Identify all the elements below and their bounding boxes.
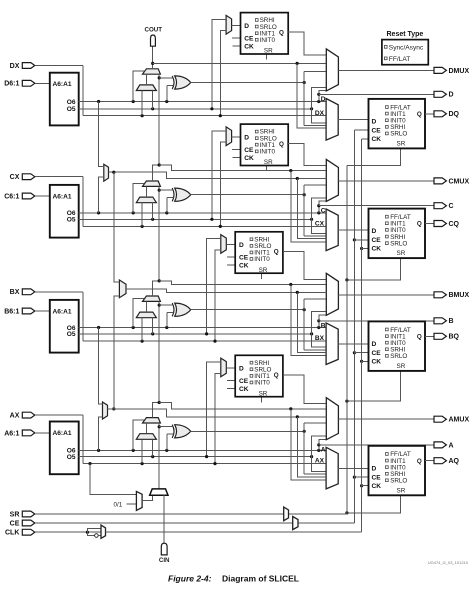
svg-text:SRLO: SRLO — [390, 131, 407, 138]
svg-text:A6:A1: A6:A1 — [53, 308, 72, 315]
svg-text:D: D — [244, 134, 249, 141]
svg-text:CE: CE — [372, 474, 382, 481]
svg-text:A6:A1: A6:A1 — [53, 193, 72, 200]
svg-text:Q: Q — [274, 249, 279, 256]
svg-text:B6:1: B6:1 — [4, 308, 19, 315]
svg-text:BMUX: BMUX — [449, 292, 470, 299]
svg-text:BX: BX — [10, 289, 20, 296]
svg-text:O6: O6 — [67, 99, 76, 106]
svg-text:O5: O5 — [67, 217, 76, 224]
svg-text:D: D — [239, 242, 244, 249]
svg-text:INIT0: INIT0 — [254, 380, 270, 387]
svg-text:BX: BX — [315, 335, 325, 342]
svg-text:O5: O5 — [67, 331, 76, 338]
svg-text:CQ: CQ — [449, 221, 460, 228]
svg-text:UG474_i2_03_101210: UG474_i2_03_101210 — [428, 560, 469, 565]
svg-text:CIN: CIN — [159, 557, 170, 564]
svg-text:Q: Q — [279, 141, 284, 148]
svg-text:CE: CE — [10, 520, 20, 527]
svg-text:BQ: BQ — [449, 334, 460, 341]
svg-text:SR: SR — [259, 267, 268, 274]
svg-text:AQ: AQ — [449, 458, 460, 465]
svg-text:Q: Q — [417, 221, 422, 228]
svg-text:FF/LAT: FF/LAT — [389, 56, 411, 63]
svg-text:DQ: DQ — [449, 111, 460, 118]
svg-text:DX: DX — [10, 63, 20, 70]
svg-text:D: D — [372, 341, 377, 348]
svg-text:B: B — [449, 318, 454, 325]
svg-text:D: D — [244, 23, 249, 30]
svg-text:CK: CK — [372, 136, 382, 143]
svg-text:SRLO: SRLO — [390, 353, 407, 360]
svg-text:Q: Q — [417, 111, 422, 118]
svg-text:CMUX: CMUX — [449, 178, 470, 185]
svg-text:CE: CE — [372, 127, 382, 134]
svg-text:SR: SR — [397, 363, 406, 370]
svg-text:CE: CE — [244, 147, 254, 154]
svg-text:CE: CE — [244, 35, 254, 42]
svg-text:C: C — [321, 207, 326, 214]
svg-text:D: D — [372, 465, 377, 472]
svg-text:C: C — [449, 203, 454, 210]
svg-text:Q: Q — [274, 372, 279, 379]
svg-text:CE: CE — [372, 237, 382, 244]
svg-text:CLK: CLK — [5, 530, 19, 537]
svg-text:AMUX: AMUX — [449, 417, 470, 424]
svg-text:D: D — [372, 119, 377, 126]
svg-text:Figure 2-4:: Figure 2-4: — [168, 574, 212, 584]
svg-text:D: D — [449, 92, 454, 99]
svg-text:D6:1: D6:1 — [4, 81, 19, 88]
svg-text:CK: CK — [372, 246, 382, 253]
svg-text:CK: CK — [239, 386, 249, 393]
svg-text:CX: CX — [10, 174, 20, 181]
svg-text:INIT0: INIT0 — [254, 256, 270, 263]
svg-text:CE: CE — [372, 350, 382, 357]
svg-text:Q: Q — [279, 29, 284, 36]
svg-text:DX: DX — [315, 110, 325, 117]
svg-text:COUT: COUT — [145, 26, 163, 33]
svg-text:O5: O5 — [67, 106, 76, 113]
svg-text:INIT0: INIT0 — [260, 37, 276, 44]
svg-text:B: B — [321, 322, 326, 329]
svg-text:Q: Q — [417, 458, 422, 465]
svg-text:AX: AX — [10, 413, 20, 420]
svg-text:CE: CE — [239, 378, 249, 385]
svg-text:0/1: 0/1 — [114, 501, 123, 508]
svg-text:D: D — [372, 228, 377, 235]
svg-text:SR: SR — [397, 250, 406, 257]
svg-text:SR: SR — [10, 511, 20, 518]
svg-text:C6:1: C6:1 — [4, 193, 19, 200]
svg-text:CK: CK — [244, 155, 254, 162]
svg-text:SRLO: SRLO — [390, 240, 407, 247]
svg-text:A6:1: A6:1 — [4, 430, 19, 437]
svg-text:O5: O5 — [67, 454, 76, 461]
svg-text:A6:A1: A6:A1 — [53, 430, 72, 437]
svg-text:SR: SR — [397, 487, 406, 494]
svg-text:SR: SR — [264, 159, 273, 166]
svg-text:Reset Type: Reset Type — [387, 31, 424, 38]
svg-text:A: A — [321, 447, 326, 454]
svg-text:SRLO: SRLO — [390, 478, 407, 485]
svg-text:A: A — [449, 442, 454, 449]
svg-text:SR: SR — [397, 141, 406, 148]
svg-text:CK: CK — [239, 263, 249, 270]
svg-text:INIT0: INIT0 — [260, 149, 276, 156]
svg-text:A6:A1: A6:A1 — [53, 81, 72, 88]
svg-text:SR: SR — [264, 48, 273, 55]
svg-text:D: D — [239, 366, 244, 373]
svg-text:SR: SR — [259, 390, 268, 397]
svg-text:Q: Q — [417, 333, 422, 340]
svg-text:Diagram of SLICEL: Diagram of SLICEL — [222, 574, 299, 584]
svg-text:AX: AX — [315, 458, 325, 465]
svg-text:CX: CX — [315, 221, 325, 228]
svg-text:CK: CK — [372, 483, 382, 490]
svg-text:CK: CK — [372, 359, 382, 366]
svg-text:CK: CK — [244, 44, 254, 51]
svg-text:DMUX: DMUX — [449, 68, 470, 75]
svg-text:Sync/Async: Sync/Async — [389, 44, 424, 51]
svg-text:D: D — [321, 96, 326, 103]
svg-text:CE: CE — [239, 255, 249, 262]
